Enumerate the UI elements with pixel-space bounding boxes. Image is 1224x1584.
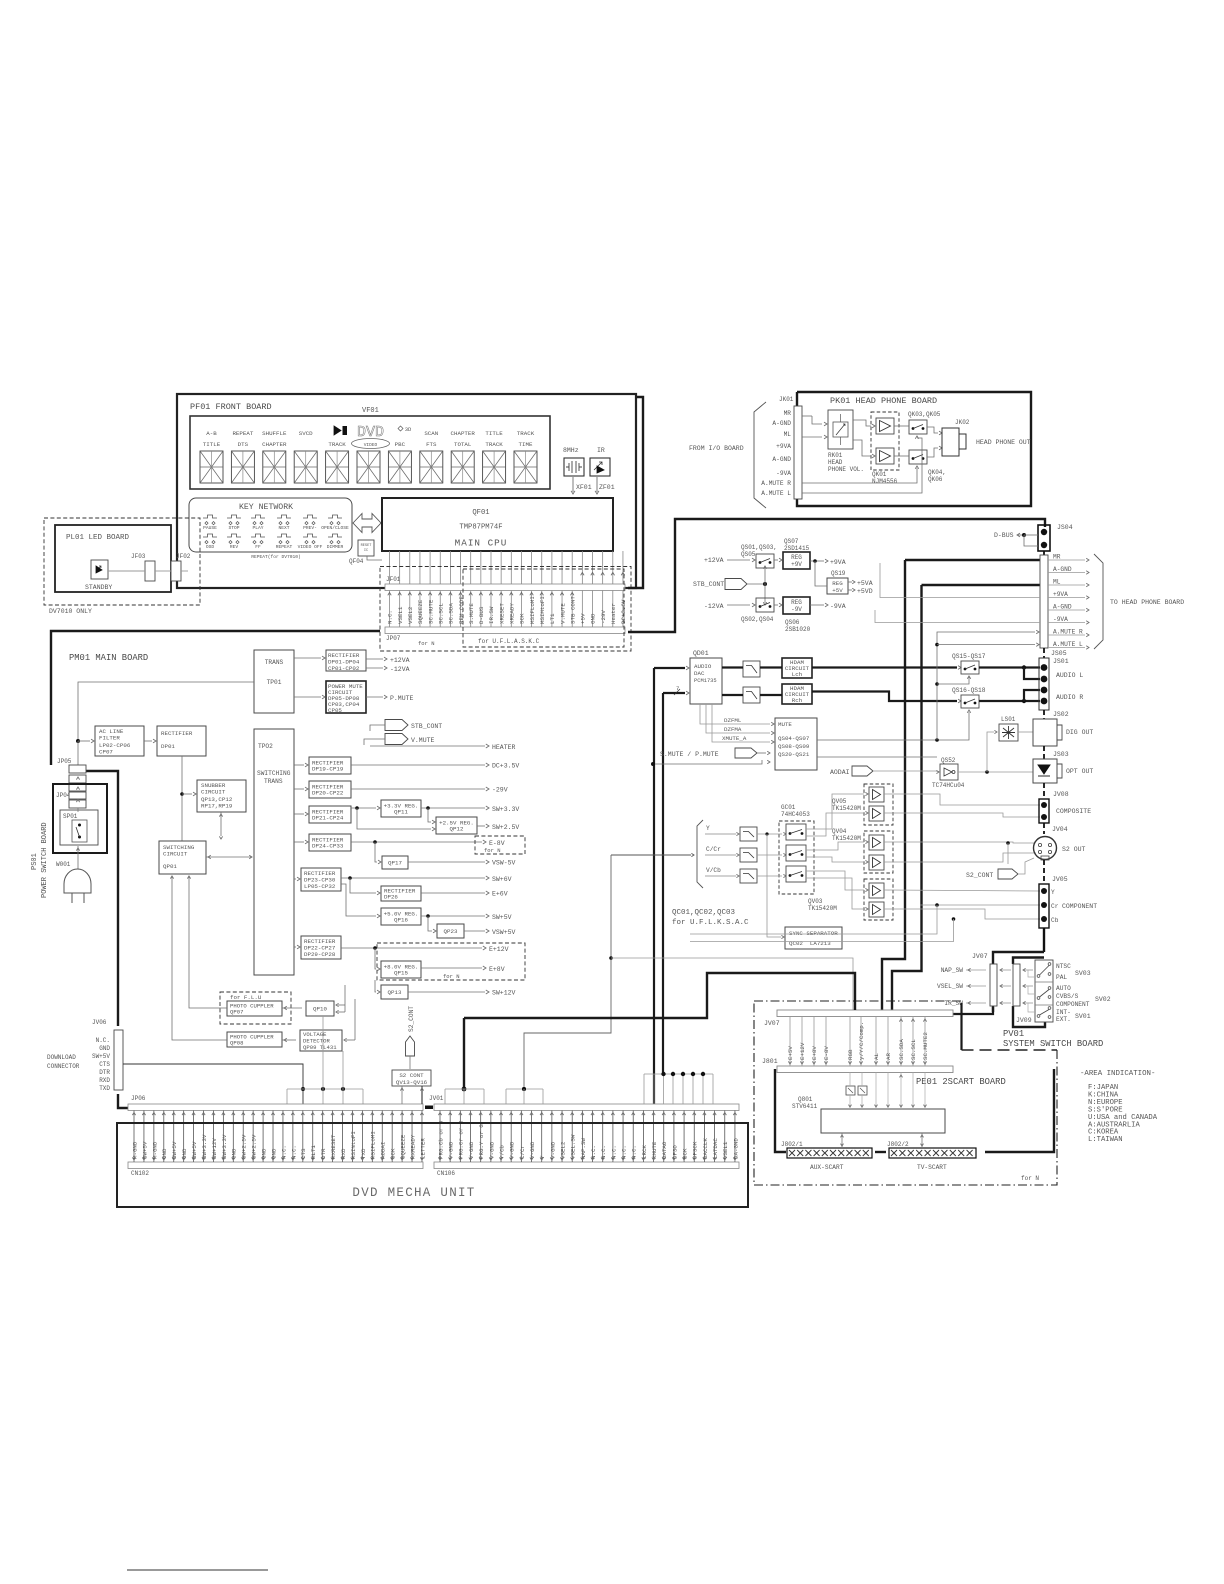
board PS01 POWER SWITCH BOARD outline [53, 784, 107, 853]
regulator +8.0V REG QP15 [381, 961, 421, 978]
svg-text:Y: Y [1051, 889, 1055, 896]
wire QS01 to REG+9V [774, 559, 778, 561]
svg-text:SC.MUTE: SC.MUTE [427, 599, 434, 624]
rectifier DP01-DP04 CP01-CP02 [326, 650, 366, 671]
svg-text:N.C.: N.C. [631, 1145, 638, 1159]
-9VA output [810, 604, 824, 606]
svg-text:DAC: DAC [694, 670, 705, 677]
svg-text:CIRCUIT: CIRCUIT [201, 789, 226, 796]
svg-text:74HC4053: 74HC4053 [781, 811, 810, 818]
svg-text:VSEL1: VSEL1 [722, 1141, 729, 1159]
svg-text:GC01: GC01 [781, 804, 796, 811]
svg-text:MR: MR [1053, 554, 1061, 561]
svg-text:Cr: Cr [1051, 903, 1059, 910]
svg-text:J801: J801 [762, 1058, 778, 1065]
svg-text:JF03: JF03 [131, 553, 146, 560]
rectifier DP26 [381, 886, 421, 901]
PE01 signal AL [875, 1017, 877, 1067]
svg-text:-9VA: -9VA [776, 470, 791, 477]
svg-text:REG: REG [791, 599, 802, 606]
HDAM circuit Lch [782, 658, 812, 678]
key switch PAUSE [203, 515, 217, 518]
JV01 pin PRG.Cr or R [459, 1111, 461, 1163]
svg-text:JV07: JV07 [972, 953, 988, 960]
svg-text:JK01: JK01 [779, 396, 794, 403]
PE01 signal SC.SCL [912, 1017, 914, 1067]
svg-text:QP08: QP08 [230, 1040, 243, 1047]
svg-text:MXRESET: MXRESET [330, 1134, 337, 1159]
svg-text:XREADY: XREADY [509, 603, 516, 624]
key switch VIDEO OFF [303, 534, 317, 537]
PE01 signal y/Y/C/Comp. [860, 1017, 862, 1067]
svg-text:SW+3.3V: SW+3.3V [221, 1134, 228, 1159]
svg-text:SWITCHING: SWITCHING [257, 770, 291, 777]
svg-text:MAIN CPU: MAIN CPU [455, 538, 508, 549]
svg-text:SW+3.3V: SW+3.3V [201, 1134, 208, 1159]
svg-text:Cb: Cb [1051, 917, 1059, 924]
svg-text:-9VA: -9VA [1053, 616, 1068, 623]
regulator +2.5V REG QP12 [436, 817, 477, 834]
video wire composite to scart [611, 958, 853, 1010]
JP06 pin TXD [361, 1111, 363, 1163]
JP06 pin SW+12V [212, 1111, 214, 1163]
DVD MECHA UNIT box [117, 1123, 748, 1207]
dash-dot edge JV08-JV04 [1043, 823, 1045, 834]
svg-text:DP20-CP22: DP20-CP22 [312, 790, 344, 797]
JF01 pin line REM.CODE [460, 551, 462, 584]
svg-text:JV04: JV04 [1052, 826, 1068, 833]
svg-text:GND: GND [181, 1148, 188, 1159]
svg-text:COMPOSITE: COMPOSITE [1056, 808, 1091, 815]
svg-text:-9V: -9V [791, 606, 802, 613]
wire QP07 feedback to switching [189, 876, 227, 1008]
svg-text:AUTO: AUTO [1056, 985, 1071, 992]
svg-text:SW+5V: SW+5V [492, 914, 512, 921]
wire filter to rectifier [144, 740, 152, 742]
output SW+5V [421, 915, 485, 917]
svg-text:QS52: QS52 [941, 757, 956, 764]
wire MR to RK01 [802, 415, 812, 417]
VF01 digit segment 6 [357, 451, 380, 483]
svg-text:VIDEO: VIDEO [364, 442, 378, 448]
svg-text:SW+3.3V: SW+3.3V [492, 806, 519, 813]
key switch FF [251, 534, 265, 537]
board PF01 FRONT BOARD outline [177, 394, 636, 588]
svg-text:BCK: BCK [681, 1148, 688, 1159]
JP06 pin CTS [302, 1111, 304, 1163]
JF01 pin line MSIFLoMI [531, 551, 533, 584]
thick scart board outline left [775, 1069, 786, 1152]
JF01 pin line SCK [520, 551, 522, 584]
thick wire JV07 scart to PV01 [953, 1007, 993, 1014]
svg-text:V-GND: V-GND [549, 1141, 556, 1159]
thick wire front board to JF01 [628, 397, 643, 588]
svg-text:PRG.Y or G: PRG.Y or G [478, 1124, 485, 1159]
svg-text:TPO2: TPO2 [258, 743, 273, 750]
svg-text:QP17: QP17 [388, 860, 402, 867]
svg-text:A.MUTE R: A.MUTE R [761, 480, 791, 487]
svg-text:DZFML: DZFML [724, 717, 742, 724]
key switch OSD [203, 534, 217, 537]
junction rail above JP06 [287, 1088, 363, 1090]
JP06 pin MXRESET [332, 1111, 334, 1163]
svg-text:CIRCUIT: CIRCUIT [163, 851, 188, 858]
key switch PREV- [303, 515, 317, 518]
JP06 pin MSIFLoMI [371, 1111, 373, 1163]
junction rail above JV01 video [445, 1088, 484, 1090]
JV01 pin XMUTE [653, 1111, 655, 1163]
svg-text:FROM I/O BOARD: FROM I/O BOARD [689, 445, 744, 452]
VF01 digit segment 9 [451, 451, 474, 483]
svg-text:STB CONT: STB CONT [569, 596, 576, 624]
svg-text:TK15420M: TK15420M [832, 835, 861, 842]
svg-text:JV08: JV08 [1053, 791, 1069, 798]
svg-text:SV03: SV03 [1075, 970, 1091, 977]
svg-text:REPEAT: REPEAT [276, 544, 293, 550]
wire Y to sync separator [767, 834, 781, 937]
PE01 signal SC.MUTE2 [924, 1017, 926, 1067]
regulator +3.3V REG QP11 [381, 800, 421, 817]
lowpass filter video Y [740, 827, 757, 841]
svg-text:DP24-CP33: DP24-CP33 [312, 843, 344, 850]
svg-text:QK03,QK05: QK03,QK05 [908, 411, 941, 418]
wire QS52 to OPT and LS01 [958, 771, 1033, 773]
svg-text:GND: GND [270, 1148, 277, 1159]
JP06 pin N.C. [282, 1111, 284, 1163]
svg-text:QS15-QS17: QS15-QS17 [952, 653, 986, 660]
junction rail above JV01 video2 [506, 1088, 543, 1090]
svg-text:AUDIO L: AUDIO L [1056, 672, 1083, 679]
svg-text:DIMMER: DIMMER [327, 544, 344, 550]
input bracket from I/O board [754, 402, 766, 508]
wires GC01 to amps [806, 794, 864, 829]
svg-text:E+5V: E+5V [787, 1046, 794, 1060]
svg-text:JP06: JP06 [131, 1095, 146, 1102]
switch block SV01-SV03 [1035, 960, 1053, 1022]
JF01 pin line VSEL1 [399, 551, 401, 584]
svg-text:PRG.Cr or R: PRG.Cr or R [458, 1120, 465, 1159]
svg-text:M-GND: M-GND [131, 1141, 138, 1159]
svg-text:STOP: STOP [228, 525, 239, 531]
JP06 pin SW+2.5V [242, 1111, 244, 1163]
regulator QP17 [382, 856, 408, 869]
JV01 pin BCK [683, 1111, 685, 1163]
svg-text:JS01: JS01 [1053, 658, 1069, 665]
svg-text:QS16-QS18: QS16-QS18 [952, 687, 986, 694]
svg-text:MR: MR [784, 410, 792, 417]
svg-text:E-8V: E-8V [489, 840, 505, 847]
JV01 pin V-GND [531, 1111, 533, 1163]
JP06 pin N.C. [292, 1111, 294, 1163]
board PE01 2SCART BOARD dash-dot outline [754, 1000, 962, 1002]
op-amp QK01 NJM4556 dashed box [871, 412, 899, 470]
svg-text:EXT.: EXT. [1056, 1016, 1071, 1023]
svg-text:TMP87PM74F: TMP87PM74F [459, 524, 502, 532]
JF01 pin line D-BUS [480, 551, 482, 584]
wire switching to TP02 [206, 856, 252, 858]
svg-text:SW+5V: SW+5V [92, 1053, 110, 1060]
transformer TRANS TP01 [254, 650, 294, 713]
svg-text:for F.L.U: for F.L.U [230, 994, 262, 1001]
svg-text:XRESET: XRESET [498, 603, 505, 624]
svg-text:AUDIO: AUDIO [694, 663, 712, 670]
wire A.MUTE R [802, 468, 917, 483]
wire rectifier to snubber [182, 793, 192, 795]
svg-text:VSEL1: VSEL1 [397, 606, 404, 624]
board PV01 outline brackets [993, 952, 1044, 964]
regulator QP23 [437, 924, 464, 938]
svg-text:OPT OUT: OPT OUT [1066, 768, 1093, 775]
sync separator QC02 LA7213 [785, 927, 842, 949]
JF01 pin line IR.SW [490, 551, 492, 584]
svg-text:SYSTEM SWITCH BOARD: SYSTEM SWITCH BOARD [1003, 1039, 1103, 1049]
board PL01 LED BOARD dashed outline [44, 518, 200, 605]
svg-text:DZFMA: DZFMA [724, 726, 742, 733]
thick wire filters to HDAM [760, 666, 782, 668]
output SW+2.5V [477, 825, 485, 827]
svg-text:DTR: DTR [99, 1069, 110, 1076]
dash-dot board edge JS04-JS05 [1043, 551, 1045, 555]
PE01 signal SC.SDA [900, 1017, 902, 1067]
wire component Cb return [952, 917, 956, 921]
connector CN102 [128, 1162, 423, 1169]
thick wire ML JS05 to scart [922, 584, 1041, 586]
switching circuit QP01 [159, 841, 206, 874]
thick bus vertical LRCK etc [653, 668, 655, 1104]
svg-text:SW+5V: SW+5V [191, 1141, 198, 1159]
thick wire MR JS05 [905, 559, 1040, 561]
svg-text:SV02: SV02 [1095, 996, 1111, 1003]
dash-dot edge JV04-JV05 [1043, 860, 1045, 884]
JV01 pin DATAO [663, 1111, 665, 1163]
JP06 pin SW+3.3V [222, 1111, 224, 1163]
VF01 digit segment 3 [263, 451, 286, 483]
svg-text:DC+3.5V: DC+3.5V [492, 763, 519, 770]
dash-dot edge JS01-JS02 [1043, 710, 1045, 719]
svg-text:REPEAT(for DV7010): REPEAT(for DV7010) [251, 554, 301, 560]
JF01 pin line STB CONT [571, 551, 573, 584]
svg-text:LP05-CP32: LP05-CP32 [304, 883, 336, 890]
svg-text:QP15: QP15 [394, 970, 408, 977]
key switch REV [227, 534, 241, 537]
svg-text:KEY NETWORK: KEY NETWORK [239, 503, 293, 512]
svg-text:CHAPTER: CHAPTER [262, 441, 287, 448]
LED standby [91, 560, 108, 579]
svg-text:+5VA: +5VA [857, 580, 873, 587]
svg-text:C/Cr: C/Cr [519, 1145, 526, 1159]
svg-text:QD01: QD01 [693, 650, 709, 657]
svg-text:for N: for N [484, 847, 501, 854]
rectifier DP19-CP19 [309, 757, 351, 774]
rectifier DP23-CP30 LP05-CP32 [301, 868, 341, 891]
JF01 pin line Heater [612, 551, 614, 584]
tag V.MUTE main board [385, 734, 408, 745]
svg-text:V-GND: V-GND [448, 1141, 455, 1159]
svg-text:QV03: QV03 [808, 898, 823, 905]
svg-text:NAP.SW: NAP.SW [580, 1138, 587, 1159]
svg-text:QF01: QF01 [472, 509, 489, 517]
svg-text:AODAI: AODAI [380, 1142, 387, 1159]
svg-text:N.C.: N.C. [280, 1145, 287, 1159]
JP06 pin SQUEEZE [401, 1111, 403, 1163]
JV01 pin N.C. [592, 1111, 594, 1163]
svg-text:for N: for N [1021, 1175, 1039, 1182]
svg-text:JK02: JK02 [955, 419, 970, 426]
PE01 signal E+5V [789, 1017, 791, 1067]
svg-text:SQUEEZE: SQUEEZE [417, 599, 424, 624]
VF01 digit segment 10 [483, 451, 506, 483]
svg-text:-AREA INDICATION-: -AREA INDICATION- [1080, 1070, 1155, 1078]
lowpass filter Rch [743, 687, 760, 703]
svg-text:QP09 TL431: QP09 TL431 [303, 1044, 337, 1051]
svg-text:STV6411: STV6411 [792, 1103, 818, 1110]
power mute circuit DP05-DP08 [326, 681, 366, 713]
svg-text:PBC: PBC [395, 441, 406, 448]
svg-text:TRANS: TRANS [265, 659, 284, 666]
wires QP10 QP09 feeds [338, 1004, 345, 1006]
thick wire HDAM Rch to switch QS16 [812, 692, 957, 702]
block QP10 [306, 1001, 334, 1016]
svg-text:E+12V: E+12V [489, 946, 509, 953]
output SW+3.3V [421, 807, 485, 809]
svg-text:Q801: Q801 [798, 1096, 813, 1103]
JF01 pin line N.C. [389, 551, 391, 584]
connector JP07 [385, 627, 625, 634]
svg-text:SVCD: SVCD [299, 430, 313, 437]
wires J801 to Q801 [846, 1086, 855, 1095]
+12VA -12VA outputs [366, 658, 383, 660]
svg-text:XF01: XF01 [576, 484, 592, 491]
svg-text:QS01,QS03,: QS01,QS03, [741, 544, 777, 551]
svg-text:CONNECTOR: CONNECTOR [47, 1063, 80, 1070]
svg-text:SCK: SCK [390, 1148, 397, 1159]
svg-text:MLT1: MLT1 [310, 1145, 317, 1159]
JF01 pin line V.MUTE [561, 551, 563, 584]
JF01 pin line GND [592, 551, 594, 584]
svg-text:PAL: PAL [1056, 974, 1067, 981]
VF01 3D icon [398, 426, 403, 431]
svg-text:HEAD: HEAD [828, 459, 843, 466]
wire AC to TP01 [78, 682, 254, 741]
svg-text:-29V: -29V [600, 610, 607, 624]
svg-text:2SD1415: 2SD1415 [784, 545, 810, 552]
svg-text:TK15420M: TK15420M [808, 905, 837, 912]
svg-text:ML: ML [1053, 579, 1061, 586]
svg-text:V.MUTE: V.MUTE [411, 737, 435, 744]
svg-text:VSEL.SW: VSEL.SW [570, 1134, 577, 1159]
svg-text:POWER SWITCH BOARD: POWER SWITCH BOARD [41, 822, 49, 898]
svg-text:S2_CONT: S2_CONT [966, 872, 993, 879]
svg-text:RESET: RESET [361, 544, 373, 548]
JF01 pin line +5V [581, 551, 583, 584]
output VSW+5V [464, 930, 485, 932]
svg-text:E+6V: E+6V [492, 891, 508, 898]
svg-text:CHAPTER: CHAPTER [451, 430, 476, 437]
svg-text:A-GND: A-GND [772, 456, 791, 463]
svg-text:S.MUTE: S.MUTE [468, 603, 475, 624]
svg-text:Y: Y [706, 825, 710, 832]
svg-text:PL01 LED BOARD: PL01 LED BOARD [66, 534, 130, 542]
svg-text:TXD: TXD [360, 1148, 367, 1159]
+5VA +5VD outputs [848, 581, 852, 583]
JP06 pin M-GND [153, 1111, 155, 1163]
JP06 pin MLT1 [312, 1111, 314, 1163]
svg-text:A.MUTE L: A.MUTE L [761, 490, 791, 497]
rectifier DP01 main [157, 726, 206, 756]
wires +9VA -9VA to JS05 [880, 563, 1040, 598]
svg-text:NJM4556: NJM4556 [872, 478, 898, 485]
JV01 pin N.C. [632, 1111, 634, 1163]
svg-text:LRCK: LRCK [641, 1145, 648, 1159]
rectifier DP24-CP33 [309, 834, 351, 851]
svg-text:TV-SCART: TV-SCART [917, 1164, 947, 1171]
svg-text:-29V: -29V [492, 787, 508, 794]
key switch PLAY [251, 515, 265, 518]
regulator REG -9V QS06 2SB1020 [783, 597, 810, 614]
photo coupler QP08 [227, 1032, 282, 1047]
svg-text:PV01: PV01 [1003, 1029, 1024, 1039]
svg-text:VSW+5V: VSW+5V [492, 929, 516, 936]
JV01 pin DACCLK [703, 1111, 705, 1163]
svg-text:CN106: CN106 [437, 1170, 455, 1177]
svg-text:+9V: +9V [791, 561, 802, 568]
svg-text:QS20-QS21: QS20-QS21 [778, 751, 810, 758]
svg-text:PAUSE: PAUSE [203, 525, 217, 531]
op-amp QK01 upper [876, 418, 894, 434]
svg-text:JV01: JV01 [429, 1095, 444, 1102]
svg-text:STB_CONT: STB_CONT [411, 723, 442, 730]
svg-text:MSIFLoMI: MSIFLoMI [370, 1131, 377, 1159]
svg-text:DACCLK: DACCLK [702, 1138, 709, 1159]
svg-text:QS08-QS09: QS08-QS09 [778, 743, 810, 750]
JP06 pin GND [262, 1111, 264, 1163]
output E-8V dashed for N [351, 841, 482, 843]
VF01 digit segment 4 [294, 451, 317, 483]
svg-text:+5VD: +5VD [857, 588, 873, 595]
JV01 pin DFSCK [693, 1111, 695, 1163]
connector JV09 [1013, 964, 1020, 1006]
svg-text:INT-: INT- [1056, 1009, 1071, 1016]
output HEATER [370, 745, 485, 747]
svg-text:S2_CONT: S2_CONT [408, 1006, 415, 1032]
svg-text:VSEL_SW: VSEL_SW [937, 983, 963, 990]
wire TP01 to power mute [294, 696, 321, 698]
svg-text:S.MUTE / P.MUTE: S.MUTE / P.MUTE [660, 751, 719, 758]
junction rail above JV01 audio [644, 1073, 713, 1075]
svg-text:SC.SDA: SC.SDA [898, 1039, 905, 1060]
HDAM circuit Rch [782, 684, 812, 704]
svg-text:CP05: CP05 [328, 707, 342, 714]
svg-text:JV09: JV09 [1016, 1017, 1032, 1024]
main CPU QF01 [382, 498, 613, 551]
svg-text:N.C.: N.C. [620, 1145, 627, 1159]
svg-text:JV06: JV06 [92, 1019, 107, 1026]
svg-text:N.C.: N.C. [600, 1145, 607, 1159]
arrows power chain [77, 808, 79, 812]
JP06 pin LETTER [421, 1111, 423, 1163]
key switch DIMMER [328, 534, 342, 537]
VF01 digit segment 2 [231, 451, 254, 483]
svg-text:PREV-: PREV- [303, 525, 317, 531]
svg-text:CN102: CN102 [131, 1170, 149, 1177]
svg-text:+9VA: +9VA [1053, 591, 1068, 598]
svg-text:JS03: JS03 [1053, 751, 1069, 758]
svg-text:TRACK: TRACK [485, 441, 503, 448]
output DC+3.5V [351, 764, 485, 766]
amplifier QV03 TK15420M [864, 879, 893, 920]
svg-text:JS02: JS02 [1053, 711, 1069, 718]
svg-text:GND: GND [260, 1148, 267, 1159]
